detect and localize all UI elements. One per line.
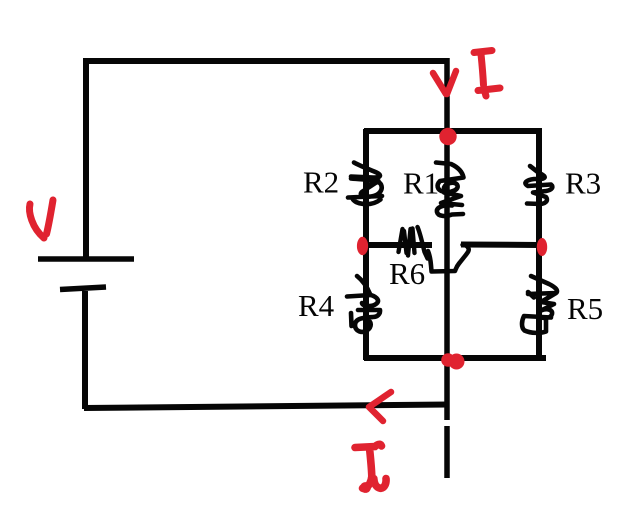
resistor R6 (zigzag scribble on middle rail) <box>399 227 428 259</box>
annotation: red current arrow down (top) <box>433 71 456 94</box>
resistor R1 (scribble on middle branch) <box>436 163 464 216</box>
resistor R3 (scribble on right upper branch) <box>525 166 552 204</box>
resistor R4 (scribble on left lower branch) <box>347 276 380 332</box>
wire: outer top from battery positive to middle branch <box>86 58 449 64</box>
svg-text:R2: R2 <box>303 165 339 200</box>
annotation: red I label (bottom) foot blob <box>360 482 371 493</box>
node: middle-left junction dot <box>357 237 368 255</box>
wire: network right vertical <box>536 128 542 360</box>
wire: bottom return to middle branch <box>84 405 449 409</box>
node: top junction dot <box>439 128 456 145</box>
svg-text:R6: R6 <box>389 256 425 291</box>
wire: middle rail left segment <box>363 242 432 248</box>
wire: squiggly connector from R6 to right middle rail <box>428 245 469 272</box>
annotation: red current arrow left (bottom) <box>369 392 391 421</box>
node: middle-right junction dot <box>537 238 547 256</box>
svg-text:R1: R1 <box>403 166 439 201</box>
svg-text:R5: R5 <box>567 291 603 326</box>
svg-text:R3: R3 <box>565 166 601 201</box>
annotation: red I label (bottom) <box>355 444 386 488</box>
resistor R5 (scribble on right lower branch) <box>522 276 557 333</box>
svg-text:R4: R4 <box>298 288 335 323</box>
battery V: short negative plate <box>60 287 106 290</box>
annotation: red V label for source voltage <box>30 200 53 238</box>
annotation: red I label (top right) <box>474 51 500 97</box>
resistor R2 (scribble on left upper branch) <box>348 163 382 205</box>
battery V: long positive plate <box>38 256 134 262</box>
wire: network top rail <box>364 128 542 134</box>
wire: middle vertical dangling lower stub <box>444 426 450 478</box>
node: bottom junction dot (double blob) <box>441 353 464 369</box>
wire: middle vertical branch (through R1) upper part <box>444 58 450 420</box>
wire: network bottom rail <box>364 355 546 361</box>
wire: from battery negative down <box>82 291 88 409</box>
wire: network left vertical <box>363 129 369 360</box>
wire: outer left vertical down to battery <box>83 58 89 260</box>
wire: middle rail right segment <box>461 242 539 249</box>
